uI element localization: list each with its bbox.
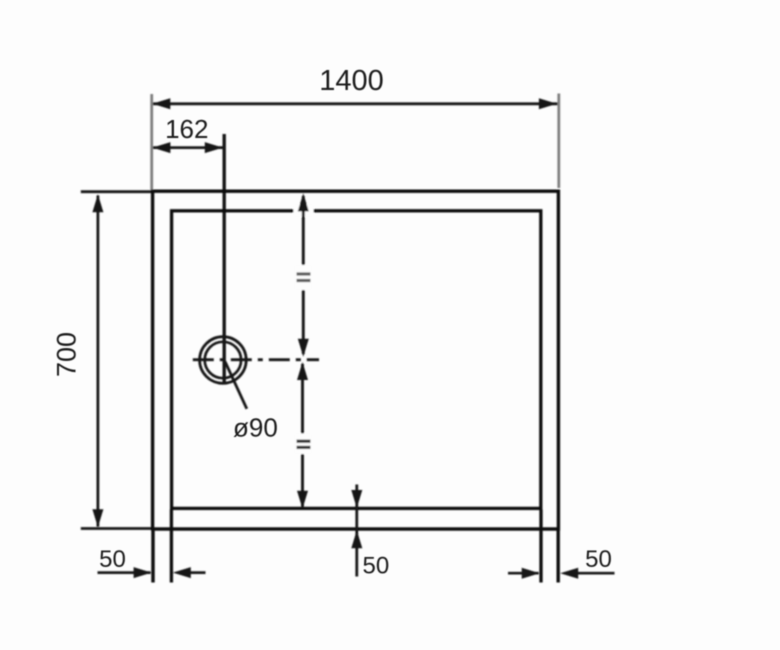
symmetric dimension upper segment (top edge to centerline) — [298, 193, 309, 356]
bottom wall 50 dimension (center-bottom, arrows outside) — [351, 485, 362, 577]
equality mark lower — [294, 434, 312, 455]
bottom wall 50 label — [363, 553, 390, 580]
dimension 162 line — [152, 142, 222, 153]
dimension 1400 label — [319, 65, 384, 97]
drain outer circle — [200, 337, 247, 384]
dimension 162 label — [165, 114, 208, 144]
extension line right (gray, for 1400 dim) — [557, 94, 560, 189]
left wall extension lines below tray — [153, 510, 171, 583]
right wall extension lines below tray — [541, 510, 558, 583]
extension line left (gray, for 1400 dim) — [150, 94, 153, 190]
gap in inner rectangle top edge around center arrow — [294, 205, 314, 217]
equality mark upper — [295, 265, 313, 290]
inner tray rectangle — [172, 211, 541, 509]
leader line from drain to label — [225, 362, 247, 409]
svg-text:50: 50 — [99, 546, 126, 573]
svg-text:50: 50 — [585, 546, 612, 573]
right wall 50 label — [585, 546, 612, 573]
extension line vertical through drain (162 dim right side) — [222, 134, 225, 384]
dimension 700 vertical line with arrows — [92, 194, 103, 527]
svg-text:ø90: ø90 — [233, 413, 278, 443]
outer tray rectangle — [153, 191, 559, 529]
right wall 50 dimension — [508, 568, 615, 579]
svg-text:1400: 1400 — [319, 65, 384, 97]
svg-text:162: 162 — [165, 114, 208, 144]
dimension 700 label (rotated) — [52, 332, 82, 377]
drain label ø90 — [233, 413, 278, 443]
extension line top-left horizontal (700 dim) — [81, 190, 151, 193]
symmetric dimension lower segment (centerline to inner bottom edge) — [297, 362, 308, 509]
drain inner circle — [205, 342, 241, 378]
dimension 1400 line — [152, 98, 557, 109]
svg-text:700: 700 — [52, 332, 82, 377]
svg-text:50: 50 — [363, 553, 390, 580]
left wall 50 label — [99, 546, 126, 573]
left wall 50 dimension — [98, 567, 206, 578]
centerline dash-dot through drain — [193, 358, 319, 361]
extension line bottom-left horizontal (700 dim) — [81, 527, 151, 530]
